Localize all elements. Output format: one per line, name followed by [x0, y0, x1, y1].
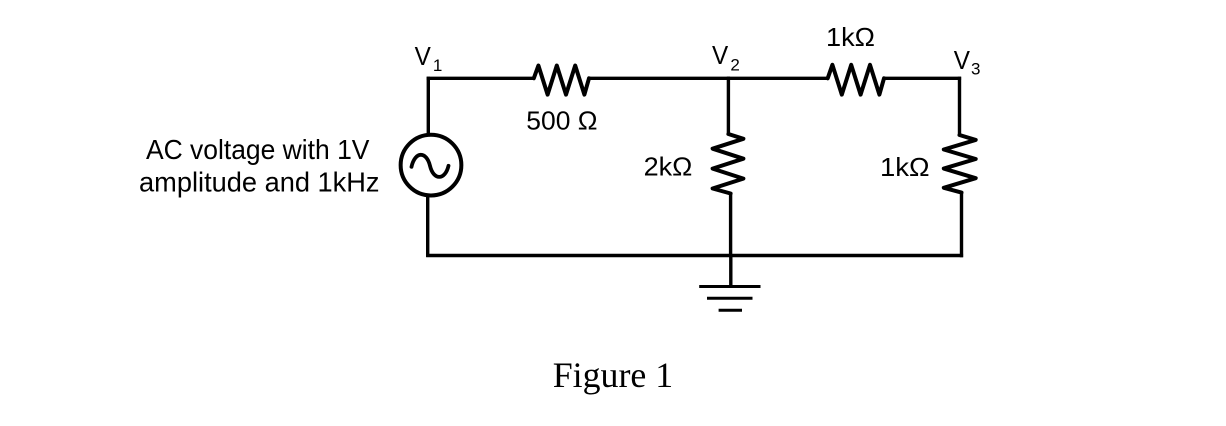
- wire resistor R2 to bottom rail: [729, 194, 732, 258]
- value label 1kohm (right): [880, 152, 930, 182]
- svg-text:V: V: [415, 41, 432, 71]
- svg-text:1kΩ: 1kΩ: [880, 152, 930, 182]
- wire node V2 to resistor R3: [727, 77, 828, 80]
- value label 2kohm: [644, 151, 693, 181]
- wire source bottom to bottom rail: [426, 197, 429, 257]
- svg-text:2kΩ: 2kΩ: [644, 151, 693, 181]
- svg-text:1: 1: [433, 56, 442, 75]
- svg-text:Figure 1: Figure 1: [553, 355, 674, 395]
- resistor R1 500ohm horizontal: [534, 66, 589, 95]
- svg-text:V: V: [712, 40, 729, 70]
- wire node V3 corner down to resistor R4: [958, 77, 961, 136]
- resistor R2 2kohm vertical: [713, 134, 744, 194]
- node V3 label: [954, 45, 981, 78]
- resistor R3 1kohm horizontal: [828, 65, 884, 95]
- wire node V1 to resistor R1: [427, 77, 534, 80]
- svg-text:500 Ω: 500 Ω: [526, 106, 597, 136]
- svg-text:amplitude and 1kHz: amplitude and 1kHz: [139, 167, 380, 198]
- svg-text:V: V: [954, 45, 971, 75]
- wire bottom rail: [426, 254, 963, 257]
- source label: AC voltage with 1V amplitude and 1kHz: [139, 134, 380, 198]
- voltage source V1 (AC): [401, 135, 462, 196]
- value label 500 ohm: [526, 106, 597, 136]
- svg-text:3: 3: [971, 59, 980, 78]
- svg-text:AC voltage with 1V: AC voltage with 1V: [146, 134, 370, 165]
- svg-text:2: 2: [730, 56, 739, 75]
- node V1 label: [415, 41, 443, 75]
- svg-text:1kΩ: 1kΩ: [826, 22, 875, 52]
- node V2 label: [712, 40, 740, 75]
- wire node V1 corner to source top: [427, 77, 430, 134]
- value label 1kohm (top): [826, 22, 875, 52]
- wire resistor R1 to node V2: [589, 77, 730, 80]
- figure caption: Figure 1: [553, 355, 674, 395]
- resistor R4 1kohm vertical: [944, 135, 976, 193]
- node V2 junction wire down to resistor R2: [727, 77, 730, 135]
- wire resistor R3 to node V3: [884, 77, 961, 80]
- ground: [699, 256, 760, 311]
- wire resistor R4 to bottom rail: [960, 193, 963, 258]
